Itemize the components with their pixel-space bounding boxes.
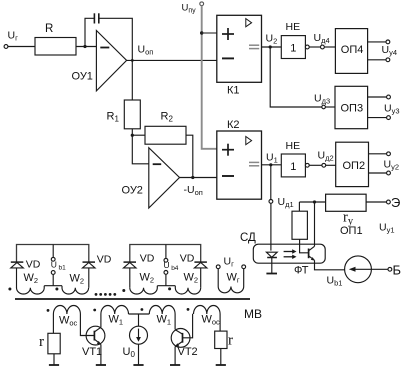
ground (U0) (133, 364, 143, 366)
node U2 (269, 45, 272, 48)
svg-text:Uд2: Uд2 (318, 150, 334, 163)
wire U2 down to OP3 input (270, 47, 322, 107)
logic NOT NE (ch4) (281, 36, 305, 59)
wire Uop output to K1 minus input (127, 59, 217, 61)
inverter bubble (305, 163, 309, 167)
wire VT1 emitter to ground (100, 344, 102, 364)
wire r to ground (220, 349, 222, 365)
resistor R2 (145, 126, 186, 144)
block OP2 (336, 142, 369, 186)
wire VT2 base to Woc (183, 314, 193, 338)
T1 centre tap / Ub1 terminals (44, 285, 62, 287)
T2 centre tap / Ub4 terminals (157, 285, 175, 287)
svg-text:W2: W2 (24, 272, 39, 285)
svg-text:Wос: Wос (59, 315, 78, 328)
terminal B (388, 267, 392, 271)
resistor R (35, 38, 76, 56)
wire capacitor to output node (99, 18, 132, 100)
winding W2 (T2 right) (175, 286, 200, 294)
winding W2 (T1 right) (62, 286, 89, 294)
svg-text:Uг: Uг (224, 256, 235, 269)
comparator K2 (217, 131, 262, 199)
svg-text:К1: К1 (227, 85, 240, 97)
svg-text:R1: R1 (107, 111, 120, 124)
svg-text:Uу2: Uу2 (384, 159, 400, 172)
svg-text:Wос: Wос (202, 314, 221, 327)
capacitor C (integrator feedback) (93, 13, 95, 23)
svg-text:R2: R2 (161, 111, 174, 124)
winding W1 (left) (101, 306, 129, 315)
current source Ub1 (345, 256, 372, 283)
svg-text:Б: Б (393, 263, 402, 278)
svg-text:Uу1: Uу1 (379, 222, 395, 235)
svg-text:Uг: Uг (8, 30, 19, 43)
svg-text:W2: W2 (70, 273, 85, 286)
ellipsis between transformers (95, 293, 117, 296)
svg-text:W1: W1 (109, 314, 124, 327)
label Uy1 (379, 222, 395, 235)
wire Woc to r (52, 314, 54, 333)
T2 top rail (130, 245, 201, 263)
svg-text:b1: b1 (59, 264, 67, 271)
wire node down to OU2 input (132, 135, 149, 164)
svg-text:НЕ: НЕ (286, 140, 301, 152)
winding W2 (T1 left) (17, 286, 45, 294)
wire NE to OP4 (309, 46, 320, 48)
winding W2 (T2 left) (130, 286, 158, 294)
optocoupler SD/FT box (253, 244, 325, 263)
wire VT1 collector to W1 (100, 314, 102, 327)
OP4 outputs (368, 41, 386, 43)
wire down to base resistor (298, 202, 300, 211)
node: feedback junction (83, 45, 86, 48)
wire to base terminal B (371, 268, 388, 270)
svg-text:VD: VD (97, 254, 112, 266)
diode VD (T2 right) (194, 261, 207, 263)
wire Upu vertical (grey) (202, 6, 217, 149)
svg-text:Э: Э (391, 195, 400, 210)
svg-text:W1: W1 (157, 314, 172, 327)
label -Uop (184, 184, 203, 197)
svg-text:ОП2: ОП2 (343, 160, 366, 172)
svg-text:Uу3: Uу3 (384, 103, 400, 116)
wire feedback up (85, 18, 94, 46)
wire U0 to ground (138, 344, 140, 365)
wire resistor to base (300, 239, 309, 253)
node Upu/K1 (200, 31, 203, 34)
svg-text:1: 1 (290, 161, 296, 173)
op-amp OU2 (149, 148, 180, 208)
ground (VT2) (170, 364, 180, 366)
svg-text:W2: W2 (184, 272, 199, 285)
wire ry to emitter terminal E (366, 201, 386, 203)
svg-text:-Uоп: -Uоп (184, 184, 203, 197)
T1 top rail (17, 245, 89, 263)
svg-text:U: U (51, 259, 57, 269)
terminal Ud2 (322, 163, 326, 167)
node U1 (269, 163, 272, 166)
wire R1 bottom to node (131, 129, 133, 135)
svg-text:VT1: VT1 (82, 346, 102, 358)
svg-text:Wг: Wг (227, 272, 240, 285)
resistor (phototransistor base) (292, 211, 307, 239)
OP2 outputs (369, 153, 387, 155)
phototransistor FT (308, 249, 310, 259)
diode VD (T2 left) (124, 261, 137, 263)
resistor ry (OP1) (326, 194, 367, 211)
block OP3 (335, 86, 368, 128)
LED (SD) (266, 252, 277, 257)
wire U1 down to LED (270, 165, 272, 200)
terminal Ud1 (269, 200, 273, 204)
ground (r right) (216, 364, 226, 366)
svg-text:СД: СД (240, 232, 256, 244)
svg-text:r: r (39, 334, 44, 350)
wire U0 tap (138, 314, 140, 326)
svg-text:Uоп: Uоп (138, 44, 154, 57)
wire VT2 emitter to ground (174, 347, 176, 365)
terminal Upu (200, 2, 204, 6)
svg-text:1: 1 (290, 43, 296, 55)
svg-text:ОУ2: ОУ2 (122, 185, 143, 197)
input terminal Ug (4, 45, 8, 49)
resistor r (right) (215, 331, 227, 348)
transistor VT2 (171, 329, 190, 348)
winding Wg sense (216, 265, 220, 269)
svg-text:VD: VD (26, 259, 41, 271)
svg-text:b4: b4 (171, 265, 179, 272)
winding Woc (left) (53, 306, 80, 315)
wire LED to ground (271, 258, 273, 274)
comparator K1 (217, 15, 262, 82)
svg-text:ОП3: ОП3 (341, 103, 364, 115)
diode VD (T1 left) (11, 261, 23, 263)
transformer core MV (15, 298, 250, 300)
svg-text:Ub1: Ub1 (327, 275, 343, 288)
terminal Ud4 (321, 45, 325, 49)
inverter bubble (305, 45, 309, 49)
ground (r left) (49, 364, 59, 366)
wire node to R2 (132, 134, 145, 136)
svg-text:ФТ: ФТ (294, 265, 309, 277)
svg-text:VT2: VT2 (178, 346, 198, 358)
svg-text:ОП4: ОП4 (341, 44, 364, 56)
svg-text:К2: К2 (227, 119, 240, 131)
label Ug (8, 30, 19, 43)
wire to K1 plus input (202, 32, 217, 34)
svg-text:Uд3: Uд3 (314, 93, 330, 106)
wire collector rail to ry (299, 201, 325, 203)
resistor r (left) (48, 333, 60, 354)
light arrows (284, 251, 293, 253)
resistor R1 (124, 100, 140, 129)
ground (LED) (266, 273, 277, 275)
wire emitter to current source (315, 260, 345, 270)
logic NOT NE (ch2) (281, 154, 305, 177)
wire R to op-amp (76, 46, 96, 48)
svg-text:VD: VD (140, 253, 155, 265)
svg-text:r: r (228, 333, 233, 349)
svg-text:Uд4: Uд4 (314, 32, 330, 45)
wire R2 right to output node (186, 135, 193, 177)
svg-text:Uпу: Uпу (182, 3, 197, 15)
diode VD (T1 right) (83, 261, 96, 263)
block OP4 (335, 29, 367, 74)
node R1/R2/OU2 (131, 134, 134, 137)
svg-text:W2: W2 (140, 272, 155, 285)
wire r to ground (53, 354, 55, 365)
svg-text:ОУ1: ОУ1 (72, 71, 93, 83)
svg-text:R: R (45, 23, 53, 35)
terminal E (387, 200, 391, 204)
svg-text:Uу4: Uу4 (382, 44, 398, 57)
wire input to R (8, 46, 35, 48)
ground (VT1) (96, 364, 106, 366)
svg-text:U2: U2 (266, 33, 278, 46)
wire W1a to U0 node (129, 313, 150, 315)
wire NE to OP2 (309, 164, 322, 166)
wire Woc to r (219, 314, 221, 331)
transistor VT1 (86, 326, 105, 345)
node output/R1 (131, 59, 134, 62)
wire W1b to VT2 collector (174, 314, 176, 329)
node ry/collector (313, 200, 316, 203)
node -Uop (191, 176, 194, 179)
wire Woc to VT1 base (80, 314, 94, 336)
wire K2 output (262, 164, 282, 166)
op-amp OU1 (96, 31, 126, 91)
wire -Uop to K2 minus input (180, 177, 217, 179)
svg-text:Uд1: Uд1 (278, 196, 294, 209)
svg-text:НЕ: НЕ (286, 21, 301, 33)
wire K1 output (262, 46, 282, 48)
label Uop (138, 44, 154, 57)
svg-text:VD: VD (180, 253, 195, 265)
wire collector up (314, 202, 316, 246)
svg-text:МВ: МВ (244, 307, 262, 321)
svg-text:ОП1: ОП1 (340, 225, 363, 237)
OP3 outputs (368, 96, 387, 98)
svg-text:U1: U1 (266, 152, 278, 165)
terminal OP3 input (322, 105, 326, 109)
winding W1 (right) (149, 306, 175, 315)
svg-text:U: U (164, 260, 170, 270)
winding Woc (right) (194, 305, 221, 314)
svg-text:U0: U0 (123, 346, 136, 359)
current source U0 (130, 326, 148, 344)
